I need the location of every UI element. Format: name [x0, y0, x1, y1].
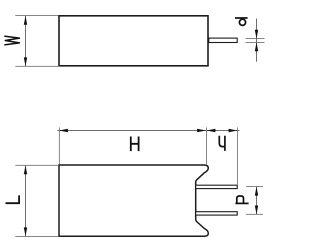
extension line d bottom	[246, 42, 265, 44]
body outline with moulded right end	[59, 165, 208, 236]
arrowhead down	[24, 57, 27, 66]
dimension L	[6, 165, 59, 236]
extension line top	[15, 15, 58, 17]
dimension line	[256, 19, 258, 62]
dimension line H and 4	[58, 130, 240, 132]
label Ч	[219, 136, 225, 151]
arrowhead up	[24, 16, 27, 25]
extension line upper (lead1 centre)	[246, 186, 263, 188]
label W (rotated)	[4, 36, 19, 45]
H arrowhead right	[197, 129, 206, 132]
dimension line	[256, 187, 258, 215]
label d (rotated): bowl	[239, 19, 245, 25]
bottom view: capacitor body front	[59, 165, 237, 236]
arrowhead up to lead bottom	[255, 42, 258, 51]
arrowhead down	[255, 206, 258, 215]
extension line bottom	[15, 236, 58, 238]
arrowhead up	[255, 187, 258, 196]
arrowhead up	[24, 166, 27, 175]
extension line B	[237, 128, 239, 185]
dimension line	[25, 16, 27, 66]
4 arrowhead left	[207, 129, 216, 132]
extension line A	[206, 128, 208, 166]
arrowhead down	[24, 227, 27, 236]
top view: capacitor body W x H	[59, 16, 237, 66]
dimension W	[4, 16, 58, 67]
dimension line	[25, 166, 27, 237]
4 arrowhead right	[229, 129, 238, 132]
label L (rotated)	[6, 195, 20, 203]
dimensions H and 4 (top of bottom view)	[58, 128, 240, 185]
label P (rotated): bowl	[237, 196, 244, 203]
extension line bottom	[15, 65, 58, 67]
extension line lower (lead2 centre)	[246, 213, 263, 215]
body outline (side view)	[59, 16, 208, 66]
dimension P	[235, 187, 263, 215]
extension line d top	[246, 38, 265, 40]
label d (rotated): stem	[235, 17, 248, 19]
lead 1 (upper)	[196, 185, 238, 188]
lead (side view)	[209, 38, 237, 42]
lead 2 (lower)	[196, 212, 238, 215]
label P (rotated): stem	[235, 202, 248, 204]
extension line left (above body corner)	[58, 128, 60, 165]
arrowhead down to lead top	[255, 30, 258, 39]
dimension d	[235, 18, 265, 62]
label H	[131, 137, 139, 152]
H arrowhead left	[59, 129, 68, 132]
extension line top	[15, 164, 58, 166]
